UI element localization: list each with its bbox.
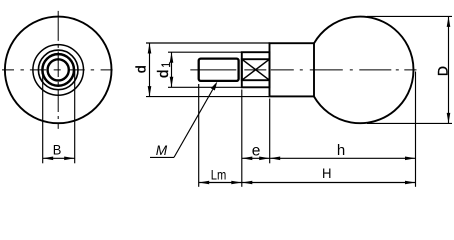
- svg-text:B: B: [53, 142, 62, 158]
- neck cylinder: [270, 43, 315, 96]
- D extension bottom: [367, 122, 452, 124]
- e arrow left: [242, 157, 253, 161]
- e dimension line: [242, 157, 270, 159]
- svg-text:D: D: [434, 66, 450, 76]
- d1 arrow down: [170, 77, 174, 88]
- neck circle: [33, 45, 84, 96]
- D extension top: [367, 15, 452, 17]
- svg-text:d: d: [132, 65, 148, 73]
- h dimension line: [270, 157, 416, 159]
- d1 extension bottom: [168, 86, 242, 88]
- h/H extension line (ball right): [415, 72, 417, 187]
- d1 arrow up: [170, 52, 174, 63]
- D arrow down: [447, 113, 451, 124]
- insert box: [242, 59, 270, 80]
- M leader arrowhead: [211, 82, 218, 91]
- insert X diagonal 1: [242, 59, 270, 80]
- svg-text:H: H: [322, 165, 332, 181]
- svg-text:d: d: [155, 70, 172, 78]
- Lm dimension line: [199, 182, 242, 184]
- h arrow left: [270, 157, 281, 161]
- Lm extension line (stud left): [198, 84, 200, 187]
- d dimension line: [149, 43, 151, 97]
- B arrow right: [64, 157, 75, 161]
- B arrow left: [43, 157, 54, 161]
- insert boss circle (B): [42, 54, 74, 86]
- e/h extension line (neck left): [269, 99, 271, 164]
- d arrow up: [148, 43, 152, 54]
- ball silhouette circle (front view): [5, 17, 112, 124]
- horizontal centerline (front view): [2, 69, 113, 71]
- svg-text:e: e: [252, 143, 261, 160]
- insert X diagonal 2: [242, 59, 270, 80]
- B extension line right: [74, 70, 76, 163]
- d extension top: [146, 42, 270, 44]
- H arrow left: [242, 181, 253, 185]
- d extension bottom: [146, 96, 270, 98]
- svg-text:h: h: [337, 142, 345, 159]
- shared extension line (ferrule left): [241, 90, 243, 187]
- svg-text:M: M: [156, 142, 168, 158]
- threaded stud: [199, 59, 239, 81]
- vertical centerline (front view): [57, 11, 59, 129]
- d1 extension top: [168, 51, 242, 53]
- d1 dimension line: [171, 52, 173, 87]
- H arrow right: [405, 181, 416, 185]
- svg-text:Lm: Lm: [211, 167, 227, 183]
- stud hole circle: [48, 59, 69, 80]
- svg-text:1: 1: [159, 62, 173, 68]
- side view centerline: [190, 69, 416, 71]
- Lm arrow left: [199, 181, 210, 185]
- e arrow right: [259, 157, 270, 161]
- h arrow right: [405, 157, 416, 161]
- M leader line: [150, 156, 174, 158]
- Lm arrow right: [231, 181, 242, 185]
- label d1 (rotated): [155, 62, 173, 78]
- B dimension line: [43, 157, 75, 159]
- H dimension line: [242, 182, 416, 184]
- ferrule circle: [38, 50, 78, 90]
- D arrow up: [447, 16, 451, 27]
- D dimension line: [448, 16, 450, 123]
- ball (sphere): [314, 17, 413, 124]
- M leader diagonal: [174, 89, 213, 157]
- ferrule (collar): [242, 52, 270, 87]
- B extension line left: [42, 70, 44, 163]
- d arrow down: [148, 86, 152, 97]
